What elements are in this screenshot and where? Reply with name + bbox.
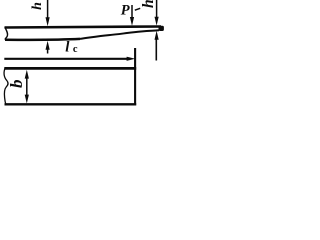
svg-text:c: c [73, 44, 78, 55]
svg-text:h: h [140, 0, 157, 8]
svg-text:b: b [7, 80, 26, 89]
svg-text:h: h [30, 2, 45, 10]
svg-text:P: P [121, 3, 130, 19]
